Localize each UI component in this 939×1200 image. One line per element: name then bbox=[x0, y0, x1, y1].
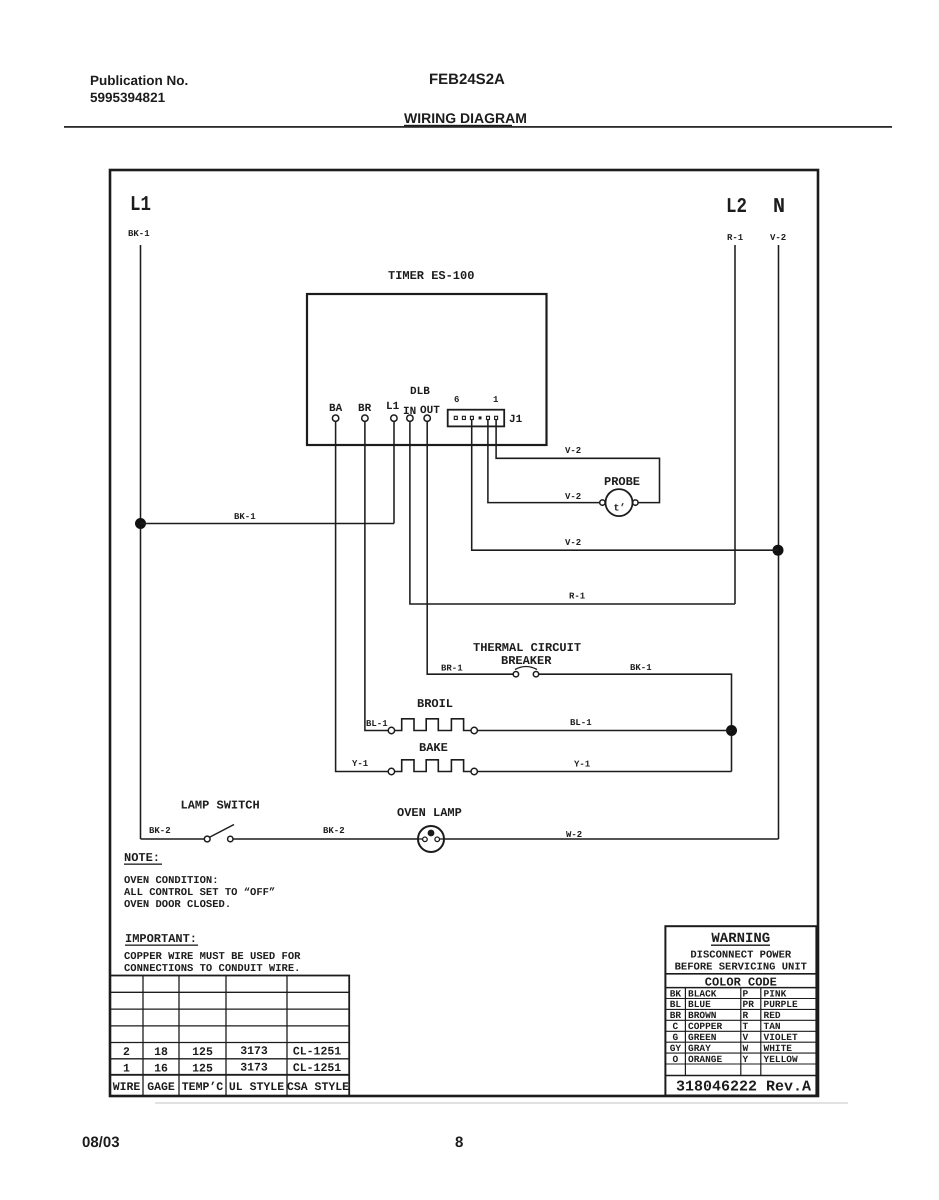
important block bbox=[124, 932, 301, 975]
svg-text:TEMP’C: TEMP’C bbox=[182, 1081, 224, 1094]
svg-text:GY: GY bbox=[670, 1043, 682, 1054]
color code rows bbox=[670, 988, 798, 1065]
wire J1 pin1 loop to probe right bbox=[496, 420, 659, 503]
wire timer L1 terminal drop bbox=[393, 422, 395, 524]
svg-text:BL: BL bbox=[670, 999, 682, 1010]
svg-text:J1: J1 bbox=[509, 414, 523, 426]
svg-text:BA: BA bbox=[329, 403, 343, 415]
svg-text:R: R bbox=[743, 1010, 749, 1021]
footer page number bbox=[455, 1134, 463, 1151]
svg-text:125: 125 bbox=[192, 1046, 213, 1059]
svg-text:Y: Y bbox=[743, 1054, 749, 1065]
wire J1 pin2 to probe left bbox=[488, 420, 600, 503]
svg-text:LAMP SWITCH: LAMP SWITCH bbox=[181, 799, 260, 813]
svg-text:WHITE: WHITE bbox=[764, 1043, 793, 1054]
junction dot broil/bake bbox=[726, 725, 737, 736]
svg-text:P: P bbox=[743, 988, 749, 999]
svg-text:BEFORE SERVICING UNIT: BEFORE SERVICING UNIT bbox=[675, 962, 807, 974]
svg-text:BK-1: BK-1 bbox=[128, 229, 150, 239]
junction dot on N rail bbox=[773, 545, 784, 556]
timer box TIMER ES-100 bbox=[307, 269, 547, 445]
svg-text:GAGE: GAGE bbox=[147, 1081, 175, 1094]
svg-text:PURPLE: PURPLE bbox=[764, 999, 799, 1010]
wire timer BA drop to bake bbox=[336, 422, 388, 772]
svg-text:V: V bbox=[743, 1032, 749, 1043]
svg-text:BAKE: BAKE bbox=[419, 741, 448, 755]
svg-text:PROBE: PROBE bbox=[604, 475, 640, 489]
probe PROBE bbox=[600, 475, 640, 516]
svg-text:WIRE: WIRE bbox=[113, 1081, 141, 1094]
svg-text:V-2: V-2 bbox=[770, 233, 786, 243]
node N wire label V-2 bbox=[770, 233, 786, 243]
svg-text:125: 125 bbox=[192, 1063, 213, 1076]
svg-text:YELLOW: YELLOW bbox=[764, 1054, 799, 1065]
svg-text:BLACK: BLACK bbox=[688, 988, 717, 999]
note block bbox=[124, 851, 275, 911]
wire J1 pin4 V-2 run to N rail bbox=[472, 420, 779, 550]
svg-text:UL STYLE: UL STYLE bbox=[229, 1081, 284, 1094]
header rule bbox=[64, 125, 892, 128]
thermal circuit breaker bbox=[441, 641, 581, 677]
wire gauge table bbox=[110, 976, 349, 1097]
svg-text:8: 8 bbox=[455, 1134, 463, 1151]
wire breaker BK-1 to junction bbox=[539, 663, 732, 772]
header model number FEB24S2A bbox=[429, 71, 505, 88]
part number row bbox=[676, 1079, 811, 1096]
svg-text:Y-1: Y-1 bbox=[352, 759, 369, 769]
svg-text:18: 18 bbox=[154, 1046, 168, 1059]
svg-text:2: 2 bbox=[123, 1046, 130, 1059]
svg-text:L2: L2 bbox=[726, 196, 747, 219]
svg-text:CL-1251: CL-1251 bbox=[293, 1046, 341, 1059]
lamp switch bbox=[181, 799, 260, 842]
svg-text:OVEN LAMP: OVEN LAMP bbox=[397, 806, 462, 820]
timer terminal BA bbox=[329, 403, 343, 421]
svg-text:PR: PR bbox=[743, 999, 755, 1010]
wire N vertical rail bbox=[778, 245, 780, 839]
svg-text:BK-1: BK-1 bbox=[234, 512, 256, 522]
svg-text:V-2: V-2 bbox=[565, 446, 581, 456]
oven lamp bbox=[397, 806, 462, 852]
svg-text:R-1: R-1 bbox=[727, 233, 744, 243]
svg-text:ORANGE: ORANGE bbox=[688, 1054, 723, 1065]
svg-text:3173: 3173 bbox=[240, 1045, 268, 1058]
svg-text:W-2: W-2 bbox=[566, 830, 582, 840]
connector J1 bbox=[448, 395, 523, 426]
svg-text:L1: L1 bbox=[386, 401, 400, 413]
svg-text:VIOLET: VIOLET bbox=[764, 1032, 799, 1043]
wire bake Y-1 to junction bbox=[478, 760, 732, 772]
svg-text:FEB24S2A: FEB24S2A bbox=[429, 71, 505, 88]
svg-text:BK: BK bbox=[670, 988, 682, 999]
warning box bbox=[665, 926, 816, 1095]
svg-text:318046222 Rev.A: 318046222 Rev.A bbox=[676, 1079, 811, 1096]
svg-text:OUT: OUT bbox=[420, 405, 440, 417]
svg-text:t’: t’ bbox=[614, 503, 626, 515]
svg-text:T: T bbox=[743, 1021, 749, 1032]
svg-text:G: G bbox=[673, 1032, 679, 1043]
wire BK-1 horizontal to timer L1 terminal bbox=[141, 512, 395, 524]
svg-text:CL-1251: CL-1251 bbox=[293, 1062, 341, 1075]
wire broil BL-1 to junction bbox=[478, 718, 732, 731]
svg-text:BR-1: BR-1 bbox=[441, 664, 463, 674]
svg-text:THERMAL CIRCUIT: THERMAL CIRCUIT bbox=[473, 641, 581, 655]
svg-text:BK-1: BK-1 bbox=[630, 663, 652, 673]
svg-text:1: 1 bbox=[123, 1063, 130, 1076]
svg-text:V-2: V-2 bbox=[565, 492, 581, 502]
junction dot on L1 rail bbox=[135, 518, 146, 529]
svg-text:DLB: DLB bbox=[410, 386, 430, 398]
bake element bbox=[352, 741, 477, 775]
timer terminal IN bbox=[403, 406, 416, 421]
svg-text:R-1: R-1 bbox=[569, 592, 586, 602]
svg-text:TIMER ES-100: TIMER ES-100 bbox=[388, 269, 474, 283]
svg-text:W: W bbox=[743, 1043, 749, 1054]
svg-text:BROIL: BROIL bbox=[417, 697, 453, 711]
svg-text:OVEN DOOR CLOSED.: OVEN DOOR CLOSED. bbox=[124, 899, 231, 911]
main diagram border bbox=[110, 170, 818, 1096]
svg-text:BK-2: BK-2 bbox=[323, 826, 345, 836]
svg-text:COPPER WIRE MUST BE USED FOR: COPPER WIRE MUST BE USED FOR bbox=[124, 951, 301, 963]
timer DLB label bbox=[410, 386, 430, 398]
header publication number bbox=[90, 73, 188, 105]
svg-text:L1: L1 bbox=[130, 194, 151, 217]
header title WIRING DIAGRAM bbox=[404, 110, 527, 126]
svg-text:CSA STYLE: CSA STYLE bbox=[287, 1081, 349, 1094]
wire timer OUT drop to breaker bbox=[427, 422, 513, 675]
svg-text:BL-1: BL-1 bbox=[570, 718, 592, 728]
svg-text:WIRING DIAGRAM: WIRING DIAGRAM bbox=[404, 110, 527, 126]
wire timer BR drop to broil bbox=[365, 422, 388, 731]
svg-text:COPPER: COPPER bbox=[688, 1021, 723, 1032]
svg-text:C: C bbox=[673, 1021, 679, 1032]
scan artifact line bbox=[155, 1102, 848, 1104]
lamp circuit wire bbox=[141, 826, 779, 840]
node L2 wire label R-1 bbox=[727, 233, 744, 243]
svg-text:DISCONNECT POWER: DISCONNECT POWER bbox=[690, 950, 792, 962]
svg-text:BK-2: BK-2 bbox=[149, 826, 171, 836]
svg-text:3173: 3173 bbox=[240, 1062, 268, 1075]
svg-text:5995394821: 5995394821 bbox=[90, 90, 166, 105]
svg-text:16: 16 bbox=[154, 1063, 168, 1076]
wire timer IN drop and R-1 run to L2 bbox=[410, 422, 735, 605]
svg-text:NOTE:: NOTE: bbox=[124, 851, 160, 865]
svg-text:BR: BR bbox=[670, 1010, 682, 1021]
svg-text:O: O bbox=[673, 1054, 679, 1065]
svg-text:RED: RED bbox=[764, 1010, 781, 1021]
svg-text:CONNECTIONS TO CONDUIT WIRE.: CONNECTIONS TO CONDUIT WIRE. bbox=[124, 963, 300, 975]
svg-text:V-2: V-2 bbox=[565, 538, 581, 548]
timer terminal BR bbox=[358, 403, 372, 421]
svg-text:08/03: 08/03 bbox=[82, 1134, 120, 1151]
svg-text:Y-1: Y-1 bbox=[574, 760, 591, 770]
svg-text:GRAY: GRAY bbox=[688, 1043, 711, 1054]
svg-text:ALL CONTROL SET TO “OFF”: ALL CONTROL SET TO “OFF” bbox=[124, 887, 275, 899]
svg-text:GREEN: GREEN bbox=[688, 1032, 717, 1043]
wire L2 vertical rail bbox=[734, 245, 736, 604]
svg-text:IMPORTANT:: IMPORTANT: bbox=[125, 932, 197, 946]
svg-text:PINK: PINK bbox=[764, 988, 787, 999]
svg-text:Publication No.: Publication No. bbox=[90, 73, 188, 88]
color code grid bbox=[665, 988, 816, 1076]
svg-text:BROWN: BROWN bbox=[688, 1010, 717, 1021]
node N label bbox=[773, 196, 785, 219]
broil element bbox=[366, 697, 477, 734]
node L1 wire label BK-1 bbox=[128, 229, 150, 239]
wire L1 vertical rail bbox=[140, 245, 142, 839]
svg-text:BLUE: BLUE bbox=[688, 999, 711, 1010]
svg-text:N: N bbox=[773, 196, 785, 219]
svg-text:BL-1: BL-1 bbox=[366, 719, 388, 729]
node L1 label bbox=[130, 194, 151, 217]
svg-text:6: 6 bbox=[454, 395, 459, 405]
svg-text:BR: BR bbox=[358, 403, 372, 415]
timer terminal L1 bbox=[386, 401, 400, 421]
timer terminal OUT bbox=[420, 405, 440, 421]
node L2 label bbox=[726, 196, 747, 219]
footer date bbox=[82, 1134, 120, 1151]
svg-text:TAN: TAN bbox=[764, 1021, 781, 1032]
svg-text:OVEN CONDITION:: OVEN CONDITION: bbox=[124, 875, 219, 887]
svg-text:1: 1 bbox=[493, 395, 499, 405]
